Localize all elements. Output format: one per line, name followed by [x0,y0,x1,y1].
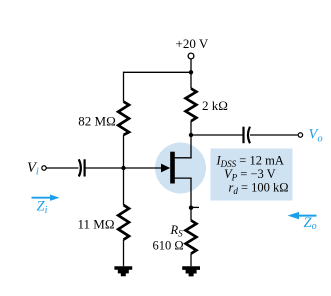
wire JFET source down to source node [190,178,192,208]
wire right branch supply to 2k [190,72,192,88]
parameter box [211,149,293,201]
input terminal [42,166,46,170]
svg-text:rd = 100 kΩ: rd = 100 kΩ [229,181,289,197]
svg-text:+20 V: +20 V [176,36,209,51]
wire source node to RS [190,208,192,221]
resistor 2 kΩ [186,89,197,122]
arrow Zo [288,212,317,219]
resistor 82 MΩ [118,102,129,135]
wire cap to output terminal [250,134,298,136]
wire drain node to output cap [191,134,243,136]
wire top horizontal [124,71,192,73]
svg-text:11 MΩ: 11 MΩ [78,217,115,232]
wire 11M to ground [123,240,125,267]
wire input terminal to cap [46,167,78,169]
wire drain node down to JFET drain [190,135,192,158]
node source junction [189,206,193,210]
capacitor C2 [242,127,244,144]
wire gate node down to 11M [123,168,125,205]
svg-text:82 MΩ: 82 MΩ [78,113,115,128]
ground left [114,266,132,276]
transistor JFET [170,152,175,184]
node top junction [189,70,193,74]
svg-text:610 Ω: 610 Ω [153,239,184,253]
svg-text:2 kΩ: 2 kΩ [202,98,228,113]
supply terminal [188,53,194,59]
arrow Zi [32,195,60,201]
output terminal [298,133,302,137]
resistor 11 MΩ [118,205,129,240]
wire RS to ground [190,254,192,267]
wire cap to gate node [85,167,124,169]
capacitor C1 [79,159,81,176]
ground right [182,266,200,276]
node highlight circle around JFET [155,143,206,194]
wire 2k to drain node [190,121,192,135]
wire supply to top node [190,59,192,73]
wire stub right of source node [191,206,199,208]
node gate junction [121,166,125,170]
resistor RS 610Ω [186,220,197,253]
wire 82M to gate node [123,135,125,168]
wire left branch down to 82M [123,72,125,102]
node drain junction [189,133,193,137]
